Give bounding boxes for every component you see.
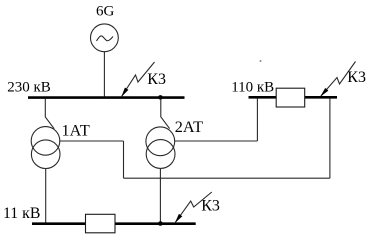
wire 1AT LV lead [45, 168, 47, 222]
short-circuit marker K3 on 110 kV bus [321, 62, 356, 97]
speck artifact [260, 60, 262, 62]
reactor box on 110 kV bus [276, 88, 305, 107]
svg-text:230 кВ: 230 кВ [7, 80, 51, 96]
wire 2AT LV lead [159, 168, 161, 222]
svg-text:110 кВ: 110 кВ [231, 79, 274, 95]
junction on 11 kV bus [158, 221, 163, 226]
svg-text:К3: К3 [201, 197, 220, 214]
reactor box on 11 kV bus [86, 214, 116, 233]
wire 2AT MV tap [175, 140, 258, 142]
wire 2AT MV riser [256, 99, 258, 141]
bus 11 kV [32, 222, 196, 225]
bus 230 kV [28, 96, 185, 99]
wire 1AT MV drop [123, 141, 125, 178]
svg-text:2АТ: 2АТ [175, 118, 203, 136]
wire generator lead [103, 52, 105, 97]
svg-text:К3: К3 [347, 69, 366, 86]
generator 6G sine wave [97, 36, 114, 41]
junction on 230 kV bus [158, 95, 163, 100]
wire 1AT HV lead [45, 99, 54, 129]
bus 110 kV [249, 96, 338, 99]
wire riser to 110 kV bus [329, 99, 331, 179]
autotransformer 2AT [146, 127, 175, 169]
svg-text:1АТ: 1АТ [62, 121, 90, 139]
svg-text:К3: К3 [147, 71, 166, 88]
wire bottom link [124, 177, 330, 179]
autotransformer 1AT [31, 127, 60, 169]
generator 6G circle [91, 24, 119, 52]
svg-text:11 кВ: 11 кВ [3, 205, 40, 222]
wire 1AT MV tap [60, 140, 124, 142]
svg-text:6G: 6G [96, 4, 115, 20]
short-circuit marker K3 on 11 kV bus [175, 192, 211, 222]
short-circuit marker K3 on 230 kV bus [122, 62, 155, 96]
wire 2AT HV lead [161, 99, 170, 129]
